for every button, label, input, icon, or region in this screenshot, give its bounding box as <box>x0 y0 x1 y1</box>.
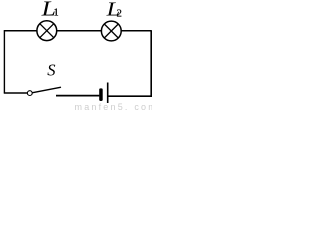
svg-text:manfen5. com: manfen5. com <box>75 102 153 111</box>
svg-text:S: S <box>47 61 55 80</box>
svg-text:1: 1 <box>54 8 59 19</box>
svg-text:2: 2 <box>117 7 123 19</box>
